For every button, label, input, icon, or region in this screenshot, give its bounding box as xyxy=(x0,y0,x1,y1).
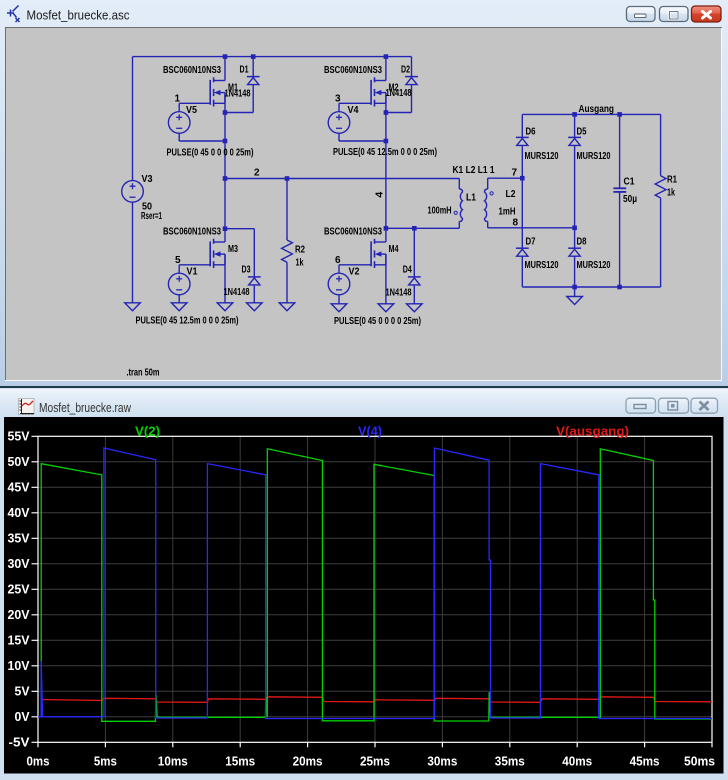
svg-text:M4: M4 xyxy=(389,244,399,255)
svg-text:D8: D8 xyxy=(577,236,587,247)
svg-text:MURS120: MURS120 xyxy=(577,151,611,162)
svg-text:35ms: 35ms xyxy=(495,755,525,769)
svg-text:1N4148: 1N4148 xyxy=(386,288,412,299)
svg-text:40V: 40V xyxy=(8,506,31,520)
svg-text:PULSE(0 45 0 0 0 0 25m): PULSE(0 45 0 0 0 0 25m) xyxy=(334,316,421,327)
svg-text:R1: R1 xyxy=(667,175,677,186)
svg-text:L2: L2 xyxy=(506,189,516,200)
svg-text:V3: V3 xyxy=(142,174,153,185)
svg-text:Mosfet_bruecke.raw: Mosfet_bruecke.raw xyxy=(39,400,131,415)
svg-text:D3: D3 xyxy=(242,265,251,276)
svg-text:30V: 30V xyxy=(8,557,31,571)
svg-text:MURS120: MURS120 xyxy=(577,260,611,271)
svg-text:D7: D7 xyxy=(526,236,536,247)
svg-text:45ms: 45ms xyxy=(630,755,660,769)
svg-text:Ausgang: Ausgang xyxy=(579,104,615,115)
svg-text:C1: C1 xyxy=(624,177,635,188)
svg-text:PULSE(0 45 0 0 0 0 25m): PULSE(0 45 0 0 0 0 25m) xyxy=(167,148,254,159)
svg-text:D6: D6 xyxy=(526,127,536,138)
svg-text:0V: 0V xyxy=(15,710,31,724)
svg-text:55V: 55V xyxy=(8,429,31,443)
svg-text:0ms: 0ms xyxy=(27,755,50,769)
svg-text:40ms: 40ms xyxy=(562,755,592,769)
svg-text:10ms: 10ms xyxy=(158,755,188,769)
svg-text:25ms: 25ms xyxy=(360,755,390,769)
svg-text:K1 L2 L1 1: K1 L2 L1 1 xyxy=(453,165,495,176)
svg-text:5V: 5V xyxy=(15,684,31,698)
svg-text:8: 8 xyxy=(513,218,519,229)
svg-text:3: 3 xyxy=(335,94,341,105)
svg-text:15V: 15V xyxy=(8,633,31,647)
svg-text:MURS120: MURS120 xyxy=(525,151,559,162)
svg-text:Rser=1: Rser=1 xyxy=(141,211,162,222)
svg-text:.tran 50m: .tran 50m xyxy=(127,367,160,378)
svg-text:M3: M3 xyxy=(228,244,238,255)
svg-text:D4: D4 xyxy=(403,265,412,276)
svg-text:50V: 50V xyxy=(8,455,31,469)
svg-text:PULSE(0 45 12.5m 0 0 0 25m): PULSE(0 45 12.5m 0 0 0 25m) xyxy=(136,316,239,327)
svg-text:1k: 1k xyxy=(296,257,304,268)
svg-text:V(ausgang): V(ausgang) xyxy=(556,425,629,439)
svg-text:BSC060N10NS3: BSC060N10NS3 xyxy=(324,65,382,76)
svg-text:5: 5 xyxy=(175,255,181,266)
svg-text:V2: V2 xyxy=(349,267,360,278)
svg-text:5ms: 5ms xyxy=(94,755,117,769)
svg-text:R2: R2 xyxy=(295,245,305,256)
svg-text:20ms: 20ms xyxy=(293,755,323,769)
svg-text:D2: D2 xyxy=(401,65,410,76)
svg-text:MURS120: MURS120 xyxy=(525,260,559,271)
svg-text:6: 6 xyxy=(335,255,341,266)
svg-text:D1: D1 xyxy=(240,65,249,76)
svg-text:25V: 25V xyxy=(8,582,31,596)
svg-text:-5V: -5V xyxy=(9,735,31,749)
svg-text:4: 4 xyxy=(373,192,385,198)
svg-text:1k: 1k xyxy=(667,188,675,199)
svg-text:V(4): V(4) xyxy=(358,425,382,439)
svg-text:35V: 35V xyxy=(8,531,31,545)
svg-text:D5: D5 xyxy=(577,127,587,138)
svg-text:2: 2 xyxy=(254,168,260,179)
svg-text:20V: 20V xyxy=(8,608,31,622)
svg-text:10V: 10V xyxy=(8,659,31,673)
svg-text:V4: V4 xyxy=(348,105,359,116)
svg-text:1N4148: 1N4148 xyxy=(225,89,251,100)
svg-text:15ms: 15ms xyxy=(225,755,255,769)
svg-text:7: 7 xyxy=(512,168,518,179)
svg-text:100mH: 100mH xyxy=(428,206,452,217)
svg-text:50ms: 50ms xyxy=(684,755,715,769)
svg-text:Mosfet_bruecke.asc: Mosfet_bruecke.asc xyxy=(27,8,130,23)
svg-text:1N4148: 1N4148 xyxy=(386,88,412,99)
svg-text:1N4148: 1N4148 xyxy=(224,287,250,298)
svg-text:1mH: 1mH xyxy=(499,207,516,218)
svg-text:V(2): V(2) xyxy=(135,425,160,439)
svg-text:50µ: 50µ xyxy=(623,194,637,205)
svg-text:L1: L1 xyxy=(466,192,476,203)
svg-text:1: 1 xyxy=(175,94,181,105)
svg-text:BSC060N10NS3: BSC060N10NS3 xyxy=(324,227,382,238)
svg-text:V1: V1 xyxy=(187,267,198,278)
svg-text:PULSE(0 45 12.5m 0 0 0 25m): PULSE(0 45 12.5m 0 0 0 25m) xyxy=(333,147,437,158)
svg-text:BSC060N10NS3: BSC060N10NS3 xyxy=(163,65,221,76)
svg-text:30ms: 30ms xyxy=(427,755,457,769)
svg-text:45V: 45V xyxy=(8,480,31,494)
svg-text:BSC060N10NS3: BSC060N10NS3 xyxy=(163,227,221,238)
svg-text:V5: V5 xyxy=(186,105,197,116)
